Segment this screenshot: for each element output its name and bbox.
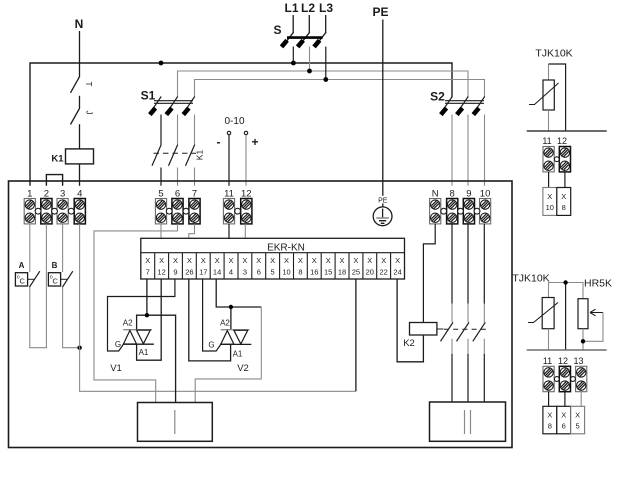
wire L3 bus y=79.5 — [195, 80, 485, 98]
node N — [75, 17, 84, 31]
thermostat A — [15, 261, 39, 287]
svg-text:11: 11 — [543, 356, 552, 366]
link 6-7 — [183, 208, 189, 214]
svg-text:X: X — [561, 192, 566, 201]
EKR-KN terminal X15 — [324, 256, 332, 276]
switch S1 pole 3 — [182, 97, 195, 145]
wire K2 contact 2 to load II — [467, 339, 469, 402]
EKR-KN terminal X25 — [352, 256, 360, 276]
wire terminal 10 to K2 contact 3 — [483, 224, 485, 322]
svg-text:8: 8 — [298, 268, 302, 277]
svg-text:T: T — [84, 82, 93, 87]
junction dot center tap — [563, 280, 567, 284]
svg-text:X: X — [353, 256, 358, 265]
svg-text:X: X — [312, 256, 317, 265]
link 1-2 — [35, 208, 41, 214]
EKR-KN terminal X16 — [310, 256, 318, 276]
wire B to node T4 — [63, 287, 80, 348]
svg-text:X: X — [381, 256, 386, 265]
wire K2 contact 3 to load II — [483, 339, 485, 402]
node L3 — [319, 1, 333, 15]
wire X26 to V2 A1 — [189, 279, 231, 361]
link 9-10 — [474, 208, 480, 214]
wire X7 to V1 A2 and load I — [137, 279, 176, 403]
link 2-3 — [52, 208, 58, 214]
X6 box — [557, 406, 571, 434]
wire terminal1 to thermostat A — [29, 224, 31, 272]
svg-text:8: 8 — [548, 422, 552, 431]
svg-text:X: X — [215, 256, 220, 265]
svg-text:X: X — [561, 411, 566, 420]
wire to X5 box — [580, 392, 582, 407]
label minus — [217, 135, 221, 149]
svg-text:TJK10K: TJK10K — [512, 273, 549, 285]
terminal 6 — [172, 189, 183, 224]
switch J — [71, 96, 94, 149]
contactor K1 label (rotated) — [195, 150, 205, 161]
svg-text:PE: PE — [372, 5, 388, 19]
svg-text:10: 10 — [480, 189, 491, 200]
contactor K2 contact 3 — [473, 322, 486, 341]
svg-text:PE: PE — [378, 198, 388, 205]
switch S2 pole 1 — [439, 97, 452, 186]
svg-text:-: - — [217, 135, 221, 149]
EKR-KN terminal X7 — [145, 256, 150, 276]
svg-text:0-10: 0-10 — [224, 116, 244, 127]
label V2 — [237, 363, 249, 374]
svg-text:A: A — [19, 261, 25, 270]
wire terminal N to K2 coil — [423, 224, 435, 323]
svg-text:X: X — [173, 256, 178, 265]
svg-text:X: X — [395, 256, 400, 265]
wire X25 down — [355, 279, 357, 391]
wire K2 contact 1 to load II — [451, 339, 453, 402]
svg-text:K2: K2 — [403, 338, 415, 349]
switch S1 label — [141, 89, 156, 103]
contactor K2 dashed link — [444, 328, 487, 330]
svg-text:K1: K1 — [195, 150, 205, 161]
EKR-KN terminal X14 — [213, 256, 221, 276]
link sensor 12-13 (bottom) — [571, 377, 576, 382]
wire V2 A2 branch to load I — [195, 307, 261, 403]
svg-text:7: 7 — [146, 268, 150, 277]
svg-text:X: X — [242, 256, 247, 265]
main enclosure box — [9, 181, 513, 448]
thermostat B — [48, 261, 72, 287]
svg-text:24: 24 — [393, 268, 401, 277]
wire to X6 box — [564, 392, 566, 407]
svg-text:8: 8 — [562, 203, 566, 212]
terminal 5 — [155, 189, 166, 224]
PE earth symbol — [373, 196, 392, 226]
svg-text:5: 5 — [576, 422, 580, 431]
wire terminal 9 to K2 contact 2 — [467, 224, 469, 322]
svg-text:20: 20 — [366, 268, 374, 277]
input terminal circle minus — [227, 131, 230, 134]
wire to X8 box (bottom) — [548, 392, 550, 407]
EKR-KN terminal X18 — [338, 256, 346, 276]
contactor K1 contact 1 — [152, 145, 161, 186]
svg-text:A1: A1 — [233, 349, 243, 358]
terminal 3 — [57, 189, 68, 224]
svg-text:12: 12 — [558, 356, 568, 366]
triac V1 — [115, 319, 154, 358]
X8 box (top) — [557, 188, 571, 216]
svg-text:X: X — [298, 256, 303, 265]
terminal 2 — [41, 189, 52, 224]
EKR-KN terminal X9 — [173, 256, 178, 276]
svg-text:11: 11 — [224, 189, 234, 200]
contactor K2 contact 1 — [441, 322, 454, 341]
svg-text:L1: L1 — [284, 1, 298, 15]
link sensor 11-12 (top) — [554, 157, 559, 162]
triac V2 — [208, 319, 251, 359]
switch S1 pole 2 — [165, 97, 178, 145]
wire terminal11 to X4 — [228, 224, 230, 253]
contactor K1 contact 2 — [169, 145, 178, 186]
svg-text:X: X — [256, 256, 261, 265]
svg-text:S1: S1 — [141, 89, 156, 103]
EKR-KN terminal X22 — [380, 256, 388, 276]
svg-text:4: 4 — [229, 268, 233, 277]
jumper terminal 2-3 — [46, 175, 62, 186]
sensor bus bar (bottom) — [527, 349, 607, 351]
junction dot HR5K wiper — [581, 339, 585, 343]
svg-text:11: 11 — [542, 136, 551, 146]
EKR-KN terminal X6 — [256, 256, 261, 276]
svg-text:B: B — [52, 261, 58, 270]
wire plus to terminal 12 — [245, 135, 247, 186]
svg-text:X: X — [201, 256, 206, 265]
svg-text:X: X — [187, 256, 192, 265]
EKR-KN terminal X3 — [242, 256, 247, 276]
link 11-12 — [235, 208, 241, 214]
svg-text:N: N — [75, 17, 84, 31]
wire sensor top branch — [549, 64, 566, 131]
label plus — [251, 135, 258, 149]
EKR-KN terminal X10 — [282, 256, 290, 276]
svg-text:18: 18 — [338, 268, 346, 277]
switch S2 pole 3 — [472, 97, 485, 186]
junction dot X14/A2 — [229, 305, 233, 309]
contactor K1 dashed link — [154, 152, 197, 154]
label 0-10 — [224, 116, 244, 127]
svg-text:G: G — [208, 341, 214, 350]
svg-text:16: 16 — [310, 268, 318, 277]
wire terminal 8 to K2 contact 1 — [451, 224, 453, 322]
EKR-KN terminal X4 — [228, 256, 233, 276]
contactor K1 contact 3 — [186, 145, 195, 186]
svg-text:L3: L3 — [319, 1, 333, 15]
svg-text:10: 10 — [282, 268, 290, 277]
input terminal circle plus — [244, 131, 247, 134]
relay coil K1 — [51, 149, 93, 186]
switch S1 link bar — [154, 101, 193, 104]
svg-text:X: X — [326, 256, 331, 265]
terminal 11 — [223, 189, 234, 224]
switch S2 link bar — [445, 101, 484, 104]
EKR-KN terminal X5 — [270, 256, 275, 276]
svg-text:13: 13 — [573, 356, 583, 366]
terminal 9 — [463, 189, 474, 224]
svg-text:17: 17 — [199, 268, 207, 277]
svg-text:EKR-KN: EKR-KN — [267, 243, 305, 254]
junction dot X7/A2 — [145, 313, 149, 317]
wire A to terminal 2 — [30, 224, 47, 348]
svg-text:A1: A1 — [139, 348, 149, 357]
switch S link bar — [287, 36, 323, 39]
node PE — [372, 5, 388, 19]
terminal 7 — [189, 189, 200, 224]
switch S pole 1 — [280, 15, 294, 63]
sensor bus bar (top) — [527, 130, 607, 132]
link 8-9 — [458, 208, 464, 214]
svg-text:9: 9 — [173, 268, 177, 277]
link sensor 11-12 (bottom) — [554, 377, 559, 382]
terminal N — [430, 189, 441, 224]
terminal 1 — [24, 189, 35, 224]
X8 box (bottom) — [543, 406, 557, 434]
wire X9 to V1 G — [108, 279, 175, 351]
svg-text:22: 22 — [380, 268, 388, 277]
svg-text:L2: L2 — [301, 1, 315, 15]
switch S label — [273, 23, 281, 37]
sensor TJK10K (top) label — [535, 48, 572, 60]
svg-text:A2: A2 — [123, 319, 133, 328]
svg-text:10: 10 — [546, 203, 554, 212]
EKR-KN terminal X26 — [185, 256, 193, 276]
svg-text:+: + — [251, 135, 258, 149]
svg-text:X: X — [547, 411, 552, 420]
wire terminal6 route to load I — [94, 224, 178, 403]
svg-text:X: X — [547, 192, 552, 201]
node L2 — [301, 1, 315, 15]
switch S1 pole 1 — [148, 97, 161, 145]
svg-text:S: S — [273, 23, 281, 37]
svg-text:1: 1 — [27, 189, 32, 200]
svg-text:X: X — [228, 256, 233, 265]
svg-text:5: 5 — [158, 189, 163, 200]
svg-text:X: X — [575, 411, 580, 420]
terminal 10 — [480, 189, 491, 224]
svg-text:TJK10K: TJK10K — [535, 48, 572, 60]
relay coil K2 — [403, 323, 443, 350]
link N-8 — [441, 208, 447, 214]
switch S pole 3 — [312, 15, 326, 80]
svg-text:3: 3 — [60, 189, 65, 200]
svg-text:12: 12 — [557, 136, 567, 146]
wire terminal12 to X3 — [244, 224, 246, 253]
svg-text:o: o — [17, 275, 20, 281]
wire to X8 box (top) — [564, 172, 566, 188]
wire X17 to V2 G — [203, 279, 221, 351]
heater load I box — [138, 403, 213, 442]
terminal 4 — [74, 189, 85, 224]
svg-text:X: X — [339, 256, 344, 265]
wire terminal7 to X26 — [189, 224, 195, 253]
terminal 8 — [447, 189, 458, 224]
label V1 — [110, 363, 122, 374]
wire L2 bus y=71 — [178, 71, 469, 97]
EKR-KN terminal X12 — [157, 256, 165, 276]
svg-text:6: 6 — [562, 422, 566, 431]
switch S2 pole 2 — [455, 97, 468, 186]
svg-text:6: 6 — [257, 268, 261, 277]
sensor TJK10K (bottom) label — [512, 273, 549, 285]
wire minus to terminal 11 — [228, 135, 230, 186]
wire X12 to V1 A1 — [137, 279, 162, 360]
thermistor TJK10K (top) — [529, 64, 559, 131]
EKR-KN terminal X17 — [199, 256, 207, 276]
wire sensor bus (bottom top side) — [549, 283, 584, 299]
sensor terminal 11 (bottom) — [543, 356, 554, 392]
wire terminal4 down to X25 run — [80, 224, 356, 391]
sensor terminal 12 (top) — [557, 136, 571, 172]
potentiometer HR5K label — [584, 278, 612, 290]
svg-text:V2: V2 — [237, 363, 249, 374]
svg-text:K1: K1 — [51, 154, 64, 165]
contactor K2 contact 2 — [457, 322, 470, 341]
switch S pole 2 — [296, 15, 310, 71]
potentiometer HR5K — [578, 299, 603, 350]
svg-text:14: 14 — [213, 268, 221, 277]
wire to X10 box — [548, 172, 550, 188]
svg-text:N: N — [432, 189, 439, 200]
EKR-KN terminal X8 — [298, 256, 303, 276]
svg-text:C: C — [52, 276, 58, 285]
svg-text:12: 12 — [157, 268, 165, 277]
wire X24 to K2 coil — [397, 279, 423, 362]
svg-text:J: J — [85, 111, 94, 115]
svg-text:25: 25 — [352, 268, 360, 277]
svg-text:26: 26 — [185, 268, 193, 277]
junction dot L3 — [323, 77, 328, 82]
X5 box — [571, 406, 585, 434]
sensor terminal 12 (bottom) — [558, 356, 571, 392]
svg-text:A2: A2 — [220, 319, 230, 328]
wire X14 to V2 A2 — [216, 279, 261, 330]
svg-text:X: X — [284, 256, 289, 265]
svg-text:C: C — [19, 276, 25, 285]
svg-text:X: X — [145, 256, 150, 265]
svg-text:o: o — [50, 275, 53, 281]
svg-text:G: G — [115, 340, 121, 349]
svg-text:X: X — [270, 256, 275, 265]
sensor terminal 11 (top) — [542, 136, 554, 172]
node L1 — [284, 1, 298, 15]
heater load II box — [430, 402, 506, 441]
EKR-KN terminal X20 — [366, 256, 374, 276]
terminal 12 — [241, 189, 252, 224]
EKR-KN terminal X24 — [393, 256, 401, 276]
junction dot B/T4 — [77, 346, 81, 350]
wire center tap (bottom) — [565, 283, 567, 351]
thermistor TJK10K (bottom) — [528, 298, 558, 351]
junction dot S1 feed — [159, 61, 164, 66]
svg-text:HR5K: HR5K — [584, 278, 612, 290]
wire N down — [79, 31, 81, 63]
junction dot L1 — [291, 61, 296, 66]
svg-text:X: X — [367, 256, 372, 265]
junction dot L2 — [307, 69, 312, 74]
sensor terminal 13 (bottom) — [573, 356, 586, 392]
X10 box — [543, 188, 557, 216]
wire terminal5 to X12 — [160, 224, 162, 253]
switch T (thermal cutout) — [71, 63, 94, 93]
switch S2 label — [430, 90, 445, 104]
svg-text:S2: S2 — [430, 90, 445, 104]
link 3-4 — [68, 208, 74, 214]
EKR-KN cell dividers — [155, 253, 391, 279]
link 5-6 — [166, 208, 172, 214]
svg-text:X: X — [159, 256, 164, 265]
wire main L1 bus y=63 — [30, 63, 452, 186]
svg-text:3: 3 — [243, 268, 247, 277]
svg-text:V1: V1 — [110, 363, 122, 374]
wire terminal3 to thermostat B — [62, 224, 64, 272]
controller EKR-KN box — [141, 238, 405, 279]
svg-text:5: 5 — [271, 268, 275, 277]
wire PE down — [382, 20, 384, 207]
svg-text:15: 15 — [324, 268, 332, 277]
